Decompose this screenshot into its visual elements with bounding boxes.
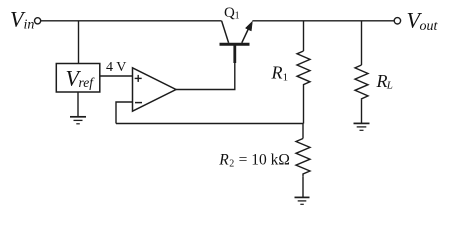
svg-text:2: 2 <box>229 159 234 170</box>
label Q1 <box>224 5 240 22</box>
resistor R2 <box>296 139 310 177</box>
label R1 <box>271 63 289 84</box>
wire node to R2 <box>302 124 304 139</box>
terminal Vin <box>35 18 41 24</box>
ground under RL <box>354 123 370 130</box>
wire R2 to ground <box>302 177 304 197</box>
transistor Q1 base bar <box>220 43 250 46</box>
svg-text:in: in <box>24 17 35 32</box>
wire op-amp minus input feedback (left, down) <box>116 102 133 124</box>
svg-text:= 10 kΩ: = 10 kΩ <box>236 151 290 168</box>
svg-text:R: R <box>376 71 388 91</box>
transistor Q1 emitter with arrow <box>242 21 253 43</box>
svg-text:1: 1 <box>283 71 289 83</box>
op-amp minus symbol <box>135 102 142 104</box>
wire rail to R1 <box>303 21 305 51</box>
label Vref <box>66 66 96 91</box>
wire Vref box to ground <box>77 92 79 117</box>
label R2 = 10 kOhm <box>218 151 290 169</box>
svg-text:1: 1 <box>235 11 240 22</box>
wire rail to RL <box>361 21 363 65</box>
wire feedback bottom run to R1/R2 node <box>116 123 303 125</box>
wire top-left rail Vin to Q1 collector <box>41 20 222 22</box>
svg-text:L: L <box>386 80 393 92</box>
svg-text:Q: Q <box>224 5 235 21</box>
wire RL to ground <box>361 99 363 123</box>
voltage reference box Vref <box>56 64 100 93</box>
ground under R2 <box>295 197 310 204</box>
svg-text:ref: ref <box>79 75 96 90</box>
svg-text:R: R <box>218 151 229 168</box>
svg-text:R: R <box>271 63 283 83</box>
wire drop from rail to Vref box <box>78 21 80 64</box>
wire R1 bottom to node <box>303 90 305 124</box>
node Vin label <box>10 7 34 33</box>
node Vout label <box>407 8 439 34</box>
wire Vref output to op-amp plus input <box>100 75 133 77</box>
resistor R1 <box>297 51 310 90</box>
transistor Q1 base lead thick <box>233 45 236 64</box>
label RL <box>376 71 393 92</box>
svg-text:out: out <box>420 19 439 34</box>
wire top-right rail Q1 emitter to Vout <box>252 20 394 22</box>
ground under Vref <box>70 117 86 124</box>
svg-text:4 V: 4 V <box>106 60 126 75</box>
transistor Q1 collector <box>222 21 229 43</box>
op-amp plus symbol <box>135 75 142 82</box>
op-amp U1 <box>133 68 177 111</box>
resistor RL <box>355 65 368 99</box>
terminal Vout <box>394 18 400 24</box>
wire op-amp output to Q1 base <box>176 63 235 90</box>
